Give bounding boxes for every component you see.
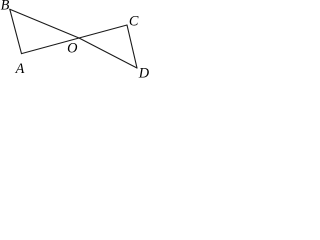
svg-text:A: A [15, 61, 25, 77]
wire: segment B to A [10, 9, 22, 53]
svg-text:O: O [67, 41, 77, 57]
wire: segment O to D [79, 38, 137, 68]
svg-text:B: B [1, 0, 10, 13]
wire: segment A to O [22, 38, 80, 54]
wire: segment O to C [79, 25, 127, 38]
wire: segment B to O [10, 9, 79, 38]
wire: segment C to D [127, 25, 137, 68]
svg-text:C: C [129, 14, 139, 30]
svg-text:D: D [138, 66, 149, 78]
